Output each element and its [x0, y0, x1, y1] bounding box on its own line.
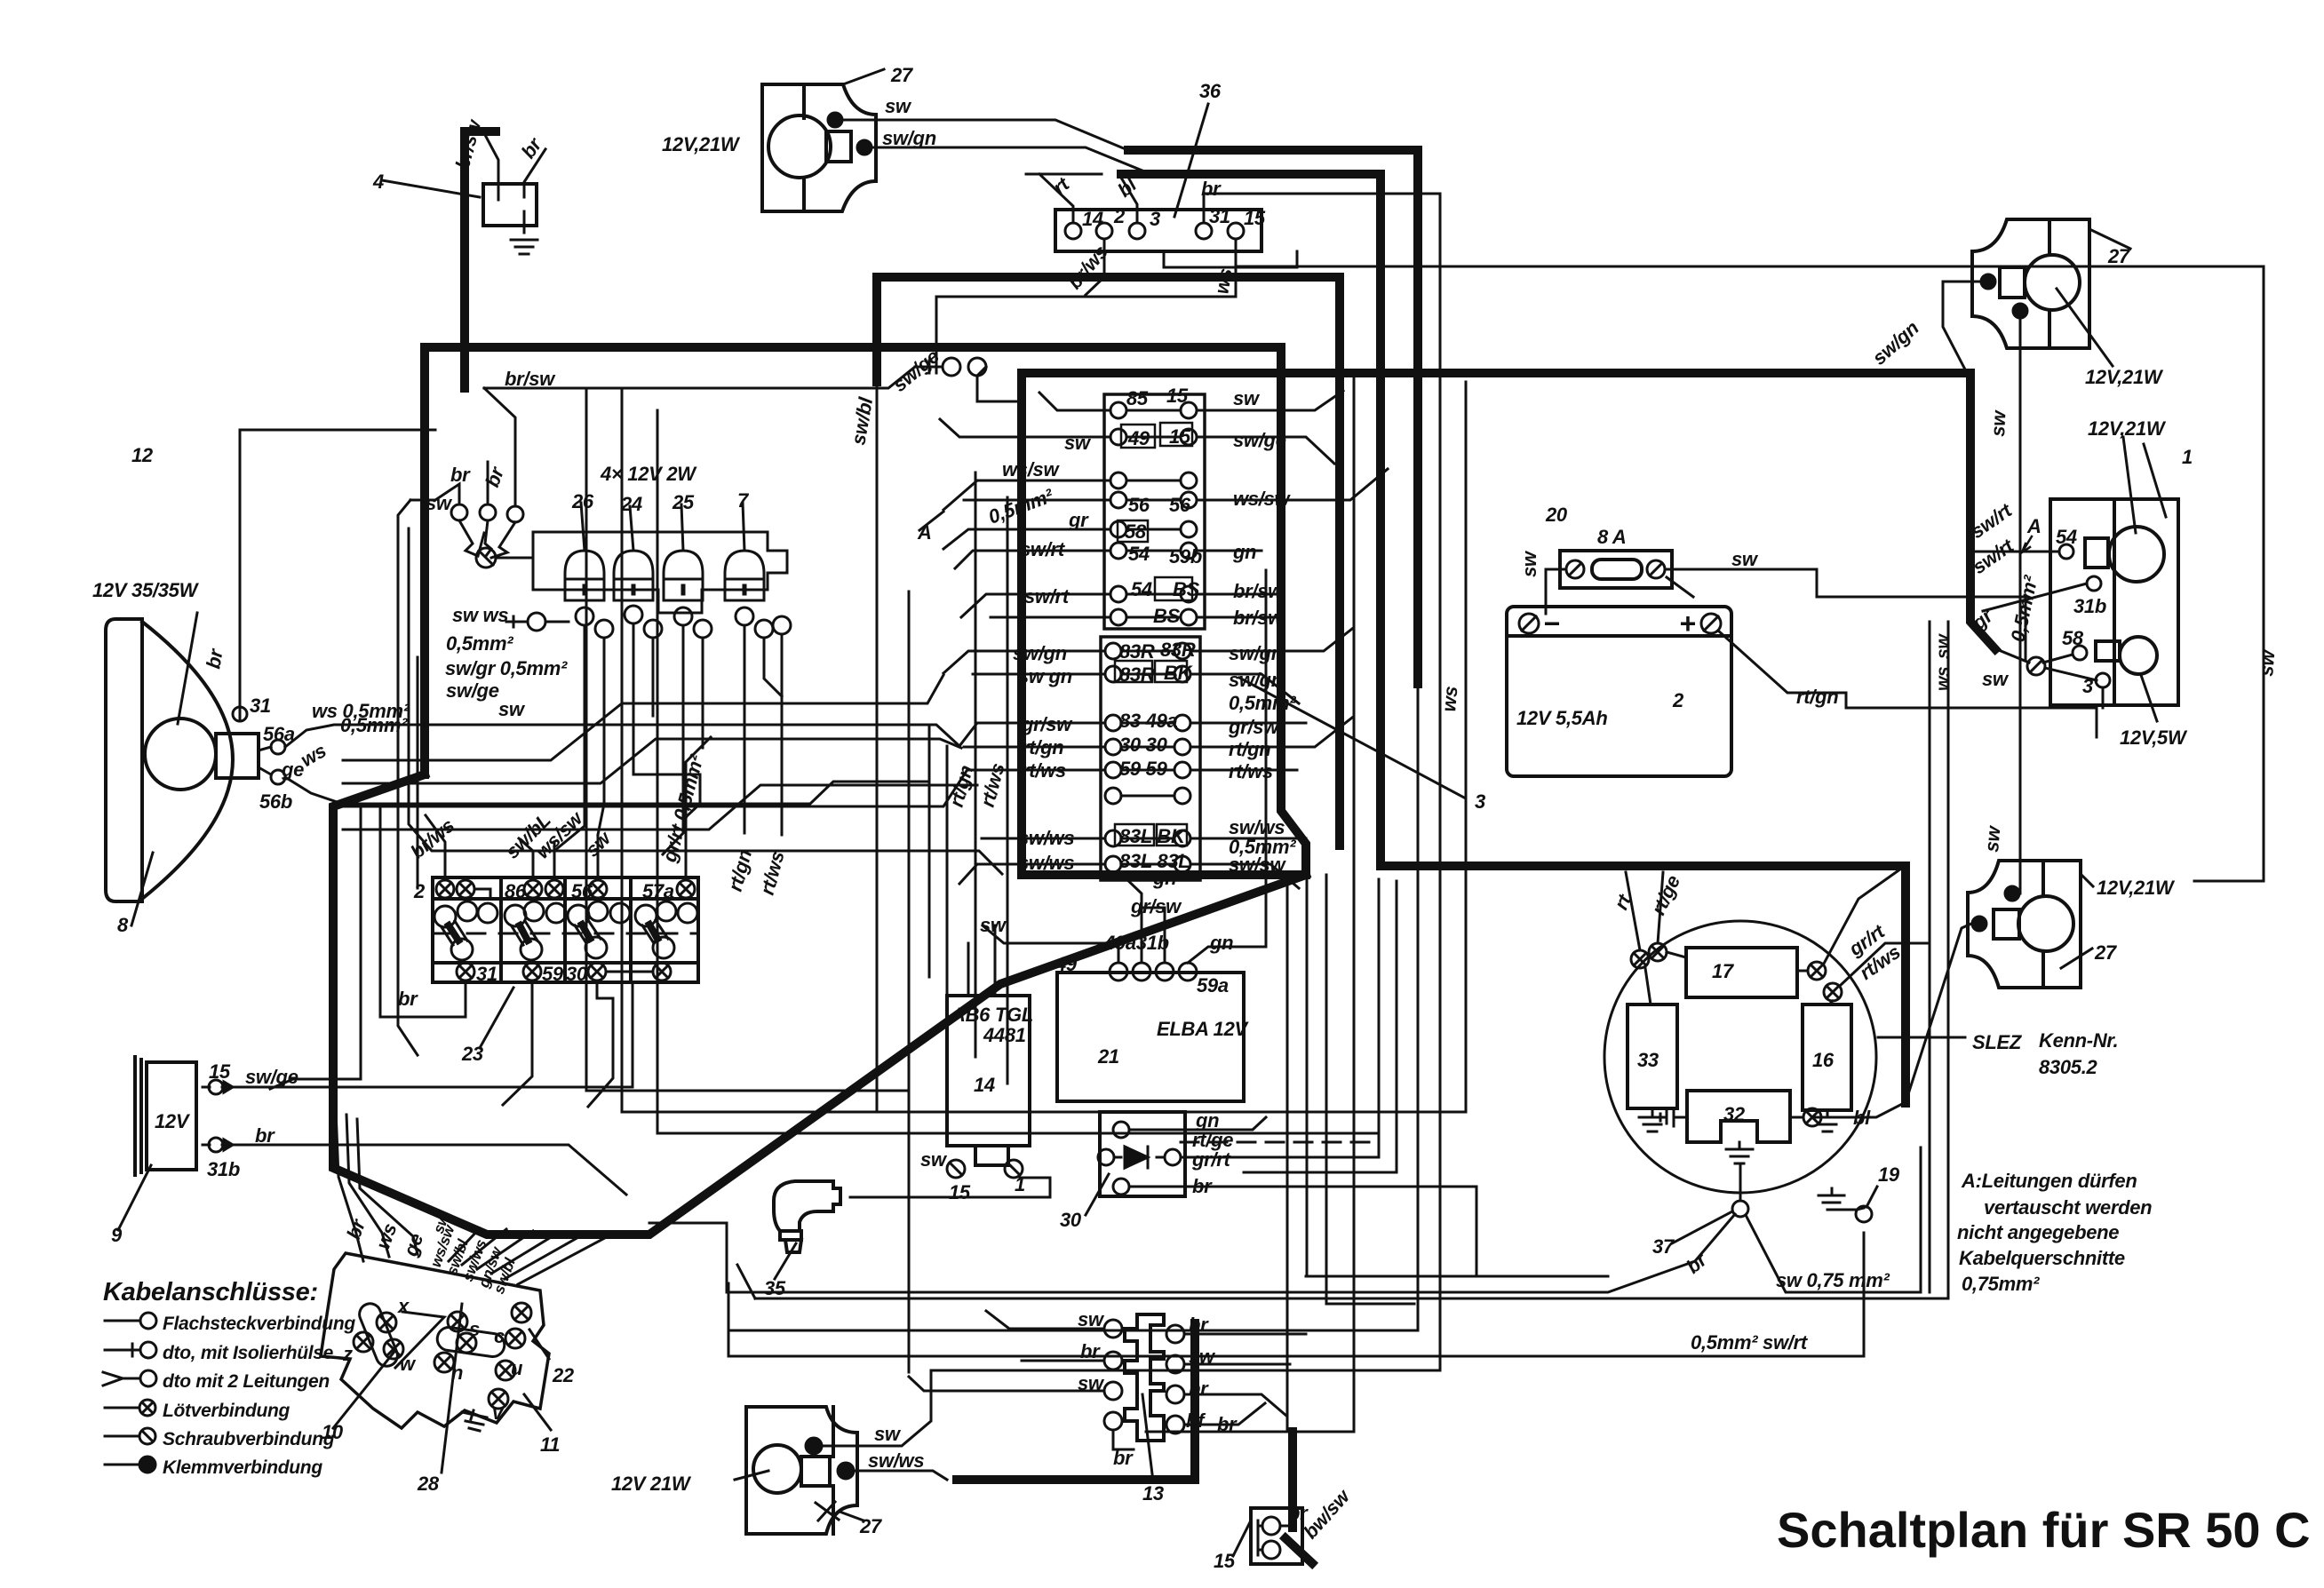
- plate leader lines: [333, 1353, 394, 1428]
- connector 4 box: [483, 184, 537, 226]
- svg-text:56b: 56b: [259, 790, 292, 813]
- long bottom horizontals: [755, 622, 1948, 1298]
- lamp BR wires: [2005, 886, 2019, 901]
- svg-text:+: +: [1679, 607, 1695, 639]
- svg-text:33: 33: [1637, 1049, 1659, 1071]
- svg-text:56a: 56a: [263, 723, 295, 745]
- svg-text:z: z: [342, 1343, 353, 1365]
- svg-text:x: x: [397, 1295, 410, 1317]
- svg-text:br: br: [398, 988, 418, 1010]
- svg-text:rt/gn: rt/gn: [1229, 738, 1270, 760]
- right far wires: [2194, 613, 2264, 881]
- svg-text:1: 1: [1015, 1173, 1025, 1195]
- lamp 27 top-right housing: [1972, 219, 2089, 348]
- ground 37 and wires: [1732, 1201, 1748, 1217]
- svg-text:sw: sw: [1233, 387, 1261, 409]
- tail light box: [2050, 499, 2178, 705]
- svg-text:Flachsteckverbindung: Flachsteckverbindung: [163, 1314, 355, 1334]
- svg-text:gr/sw: gr/sw: [1228, 716, 1280, 738]
- svg-text:ws/sw: ws/sw: [1002, 458, 1060, 480]
- svg-text:4: 4: [372, 171, 384, 193]
- wire thick left artery down into ignition plate and diagonal D1: [333, 774, 1306, 1235]
- svg-text:58: 58: [1125, 520, 1147, 543]
- headlight wires: [240, 430, 435, 721]
- svg-text:rt/ws: rt/ws: [1022, 759, 1066, 782]
- svg-text:sw/ge: sw/ge: [1233, 429, 1286, 451]
- svg-text:30: 30: [566, 963, 588, 985]
- svg-text:A: A: [917, 521, 932, 544]
- right side verticals and paths: [1287, 875, 1293, 1432]
- svg-text:dto, mit Isolierhülse: dto, mit Isolierhülse: [163, 1343, 334, 1363]
- svg-text:15: 15: [209, 1060, 231, 1083]
- svg-text:36: 36: [1199, 80, 1222, 102]
- headlight shell: [106, 619, 142, 901]
- SLEZ circle: [1604, 921, 1876, 1193]
- switch block 23 internals: [436, 880, 454, 898]
- rt/rt-ge wires into SLEZ: [1626, 872, 1640, 950]
- ignition switch plate: [321, 1253, 549, 1428]
- svg-text:Kabelquerschnitte: Kabelquerschnitte: [1959, 1247, 2125, 1269]
- svg-text:19: 19: [1878, 1163, 1900, 1186]
- svg-text:−: −: [1543, 607, 1559, 639]
- svg-text:rt/gn: rt/gn: [1022, 736, 1063, 758]
- svg-text:br: br: [255, 1124, 275, 1147]
- svg-text:Lötverbindung: Lötverbindung: [163, 1401, 290, 1421]
- svg-text:83R: 83R: [1119, 663, 1155, 686]
- AB6 box 14: [947, 996, 1030, 1146]
- svg-text:sw/rt: sw/rt: [1024, 585, 1070, 607]
- diode 30 internals: [1113, 1122, 1129, 1138]
- svg-text:49: 49: [1055, 953, 1078, 975]
- svg-text:15: 15: [1244, 207, 1266, 229]
- ground 19: [1819, 1188, 1864, 1210]
- svg-text:sw/ws: sw/ws: [1018, 852, 1074, 874]
- svg-text:12V,21W: 12V,21W: [662, 133, 741, 155]
- wires from bulb terminals: [554, 625, 585, 851]
- svg-text:0,5mm²: 0,5mm²: [446, 632, 513, 655]
- diode wires to right: [1129, 1117, 1266, 1130]
- svg-text:ws 0,5mm²: ws 0,5mm²: [312, 700, 410, 722]
- svg-text:16: 16: [1812, 1049, 1835, 1071]
- svg-text:83L BK: 83L BK: [1119, 825, 1187, 847]
- svg-text:11: 11: [540, 1433, 560, 1456]
- svg-text:56: 56: [1169, 494, 1191, 516]
- svg-text:10: 10: [322, 1421, 344, 1443]
- svg-text:31: 31: [1209, 205, 1230, 227]
- svg-text:sw: sw: [874, 1423, 902, 1445]
- svg-text:vertauscht werden: vertauscht werden: [1984, 1196, 2152, 1219]
- wire sw/gn bus: [1121, 174, 1906, 1103]
- svg-text:br/sw: br/sw: [1233, 580, 1285, 602]
- svg-text:ELBA 12V: ELBA 12V: [1157, 1018, 1250, 1040]
- svg-text:83R: 83R: [1160, 639, 1196, 661]
- svg-text:0,5mm² sw/rt: 0,5mm² sw/rt: [1691, 1331, 1809, 1354]
- svg-text:BS: BS: [1173, 578, 1200, 600]
- svg-text:s: s: [469, 1318, 480, 1340]
- svg-text:bf: bf: [1186, 1409, 1206, 1432]
- svg-text:Schraubverbindung: Schraubverbindung: [163, 1429, 335, 1449]
- svg-text:56: 56: [571, 880, 593, 902]
- svg-text:A:Leitungen dürfen: A:Leitungen dürfen: [1961, 1170, 2137, 1192]
- svg-text:rt/ws: rt/ws: [1229, 760, 1273, 782]
- lamp 27 bottom-left housing: [746, 1407, 857, 1534]
- svg-text:ws/sw: ws/sw: [1233, 488, 1291, 510]
- svg-text:27: 27: [2107, 245, 2131, 267]
- svg-text:13: 13: [1142, 1482, 1164, 1505]
- svg-text:br: br: [1113, 1447, 1134, 1469]
- svg-text:25: 25: [672, 491, 695, 513]
- svg-text:sw ws: sw ws: [452, 604, 508, 626]
- svg-text:1: 1: [2182, 446, 2193, 468]
- wire sw bus (upper): [1128, 150, 1418, 684]
- svg-text:27: 27: [890, 64, 914, 86]
- sw/bl plug pair at top: [943, 358, 960, 376]
- ELBA connector row: [1110, 963, 1127, 981]
- lamp TR wires: [1981, 274, 1995, 289]
- svg-text:4× 12V 2W: 4× 12V 2W: [600, 463, 697, 485]
- svg-text:ws: ws: [1437, 686, 1461, 713]
- wire inner frame: [1022, 373, 1995, 875]
- svg-text:br: br: [1080, 1340, 1101, 1362]
- svg-text:sw/ws: sw/ws: [1018, 827, 1074, 849]
- lamp 27 top-left housing: [762, 84, 876, 211]
- connector 36 box: [1055, 210, 1261, 251]
- svg-text:sw: sw: [1986, 409, 2010, 437]
- svg-text:sw/gn: sw/gn: [1229, 669, 1283, 691]
- svg-text:58: 58: [2062, 627, 2084, 649]
- svg-text:BK: BK: [1164, 662, 1194, 684]
- wire bundle into plate: [336, 1110, 363, 1261]
- svg-text:sw: sw: [1518, 550, 1540, 577]
- svg-text:2: 2: [413, 880, 426, 902]
- svg-text:14: 14: [1082, 208, 1103, 230]
- svg-text:Kenn-Nr.: Kenn-Nr.: [2039, 1029, 2118, 1052]
- svg-text:gn: gn: [1209, 932, 1233, 954]
- svg-text:br: br: [1201, 178, 1222, 200]
- ELBA box: [1057, 973, 1244, 1101]
- svg-text:sw: sw: [1982, 668, 2010, 690]
- svg-text:15: 15: [1169, 425, 1191, 448]
- svg-text:28: 28: [417, 1473, 440, 1495]
- legend symbols: [105, 1320, 140, 1322]
- svg-text:12V,21W: 12V,21W: [2097, 877, 2176, 899]
- svg-text:br: br: [450, 464, 471, 486]
- svg-text:sw/gn: sw/gn: [1229, 642, 1283, 664]
- svg-text:w: w: [400, 1353, 417, 1375]
- svg-text:SLEZ: SLEZ: [1972, 1031, 2023, 1053]
- svg-text:sw: sw: [1078, 1308, 1105, 1330]
- wire thick bottom lamp to connector 13: [957, 1323, 1195, 1480]
- left stub connections: [1039, 393, 1110, 410]
- bottom-left lamp wires: [806, 1438, 822, 1454]
- svg-text:sw: sw: [498, 698, 526, 720]
- svg-text:sw: sw: [1078, 1372, 1105, 1394]
- svg-text:12V,5W: 12V,5W: [2120, 727, 2188, 749]
- svg-text:sw/ge: sw/ge: [245, 1066, 298, 1088]
- svg-text:4481: 4481: [983, 1024, 1026, 1046]
- connector 13: [1125, 1314, 1164, 1441]
- svg-text:n: n: [451, 1362, 463, 1384]
- svg-text:30: 30: [1060, 1209, 1082, 1231]
- svg-text:31b: 31b: [207, 1158, 240, 1180]
- svg-text:nicht angegebene: nicht angegebene: [1957, 1221, 2119, 1243]
- svg-text:31b: 31b: [2073, 595, 2106, 617]
- svg-text:3: 3: [1475, 790, 1485, 813]
- tail light wires: [1970, 551, 2059, 553]
- svg-text:gr: gr: [1068, 509, 1089, 531]
- svg-text:12V: 12V: [155, 1110, 191, 1132]
- svg-text:br/sw: br/sw: [1233, 607, 1285, 629]
- svg-text:Klemmverbindung: Klemmverbindung: [163, 1457, 322, 1478]
- svg-text:sw/rt: sw/rt: [1020, 538, 1066, 560]
- instrument lamp cluster: [451, 504, 467, 520]
- svg-text:sw: sw: [1980, 823, 2005, 853]
- svg-text:ws: ws: [1210, 266, 1237, 296]
- svg-text:15: 15: [1214, 1550, 1236, 1572]
- svg-text:24: 24: [620, 493, 642, 515]
- conn4 wires: [484, 133, 498, 200]
- svg-text:8305.2: 8305.2: [2039, 1056, 2098, 1078]
- svg-text:22: 22: [552, 1364, 575, 1386]
- svg-text:A: A: [2026, 515, 2041, 537]
- diode box 30: [1100, 1112, 1185, 1196]
- svg-text:u: u: [511, 1357, 523, 1379]
- svg-text:59: 59: [542, 963, 564, 985]
- svg-text:0,75mm²: 0,75mm²: [1962, 1273, 2040, 1295]
- svg-text:12V 21W: 12V 21W: [611, 1473, 692, 1495]
- svg-text:br: br: [1217, 1413, 1238, 1435]
- conn13 circles and wires: [1104, 1320, 1122, 1338]
- svg-text:20: 20: [1545, 504, 1568, 526]
- svg-text:83R: 83R: [1119, 640, 1155, 663]
- svg-text:59b: 59b: [1169, 545, 1202, 568]
- fuse 20: [1560, 551, 1672, 588]
- svg-text:gr/sw: gr/sw: [1130, 895, 1182, 917]
- svg-text:37: 37: [1652, 1235, 1675, 1258]
- long middle loop: [622, 388, 1466, 1112]
- switch block 23: [433, 877, 698, 982]
- SLEZ terminals: [1649, 943, 1667, 961]
- bulbs 26 24 25 7: [565, 551, 604, 579]
- svg-text:35: 35: [764, 1277, 786, 1299]
- svg-text:gr/sw: gr/sw: [1021, 713, 1073, 735]
- svg-text:br: br: [1192, 1175, 1213, 1197]
- svg-text:83L 83L: 83L 83L: [1119, 850, 1190, 872]
- svg-text:sw: sw: [1731, 548, 1759, 570]
- svg-text:17: 17: [1712, 960, 1735, 982]
- lamp cluster box: [533, 532, 787, 613]
- svg-text:21: 21: [1097, 1045, 1119, 1068]
- speaker 9: [147, 1062, 196, 1170]
- lamp 27 bottom-right housing: [1968, 861, 2081, 988]
- svg-text:2: 2: [1672, 689, 1684, 711]
- svg-text:sw/sw: sw/sw: [1229, 854, 1286, 876]
- svg-text:12V,21W: 12V,21W: [2088, 417, 2167, 440]
- svg-text:br/sw: br/sw: [505, 368, 556, 390]
- svg-text:0,5mm²: 0,5mm²: [1229, 692, 1296, 714]
- wire thick top bus with corners: [877, 277, 1340, 846]
- svg-text:59a: 59a: [1197, 974, 1229, 996]
- svg-text:26: 26: [571, 490, 594, 512]
- svg-text:dto mit 2 Leitungen: dto mit 2 Leitungen: [163, 1371, 330, 1392]
- wire inner frame bottom edge: [1022, 870, 1306, 879]
- svg-text:sw/gn: sw/gn: [1013, 642, 1067, 664]
- svg-text:sw: sw: [426, 492, 453, 514]
- svg-text:br: br: [1189, 1314, 1209, 1336]
- svg-text:83 49a: 83 49a: [1119, 710, 1178, 732]
- svg-text:54: 54: [1131, 578, 1152, 600]
- svg-text:rt/gn: rt/gn: [1796, 686, 1838, 708]
- svg-text:sw/gr 0,5mm²: sw/gr 0,5mm²: [445, 657, 568, 679]
- svg-text:8: 8: [117, 914, 129, 936]
- svg-text:27: 27: [2094, 941, 2118, 964]
- svg-text:56: 56: [1128, 494, 1150, 516]
- wire outer loop: left vertical, top horizontal, right vertical: [425, 347, 1306, 875]
- svg-text:31: 31: [250, 695, 271, 717]
- battery: [1507, 607, 1731, 776]
- svg-text:12V 5,5Ah: 12V 5,5Ah: [1516, 707, 1607, 729]
- ignition plate internals: [354, 1332, 373, 1352]
- svg-text:Schaltplan für SR 50 C: Schaltplan für SR 50 C: [1777, 1502, 2311, 1558]
- svg-text:12V 35/35W: 12V 35/35W: [92, 579, 200, 601]
- svg-text:9: 9: [111, 1224, 123, 1246]
- svg-text:br: br: [1189, 1378, 1209, 1400]
- svg-text:gr/rt: gr/rt: [1191, 1148, 1231, 1171]
- svg-text:ge: ge: [281, 758, 304, 781]
- svg-text:c: c: [494, 1325, 505, 1347]
- svg-text:15: 15: [1166, 385, 1189, 407]
- AB6 screws and wires: [947, 1160, 965, 1178]
- svg-text:sw: sw: [1064, 432, 1092, 454]
- svg-text:sw 0,75 mm²: sw 0,75 mm²: [1776, 1269, 1890, 1291]
- svg-text:sw/gn: sw/gn: [882, 127, 936, 149]
- svg-text:27: 27: [859, 1515, 883, 1537]
- right stub connections: [1197, 391, 1343, 410]
- svg-text:bl: bl: [1853, 1107, 1871, 1129]
- svg-text:7: 7: [737, 489, 750, 512]
- svg-text:49: 49: [1127, 427, 1150, 449]
- wires between 23 and central area: [876, 382, 879, 1110]
- wire br/sw vertical from connector 4: [465, 131, 496, 388]
- svg-text:32: 32: [1723, 1103, 1746, 1125]
- fuse and battery wires: [1566, 560, 1584, 578]
- svg-text:AB6 TGL: AB6 TGL: [951, 1004, 1033, 1026]
- svg-text:12V,21W: 12V,21W: [2085, 366, 2164, 388]
- svg-text:sw/ws: sw/ws: [868, 1449, 924, 1472]
- wire thick at switch 15: [1288, 1432, 1297, 1528]
- spark plug 35: [774, 1181, 840, 1231]
- svg-text:57a: 57a: [642, 880, 674, 902]
- svg-text:14: 14: [974, 1074, 995, 1096]
- svg-text:Kabelanschlüsse:: Kabelanschlüsse:: [103, 1278, 318, 1306]
- speaker wires: [203, 984, 633, 1087]
- spark plug wire: [850, 1178, 1050, 1197]
- svg-text:49a31b: 49a31b: [1103, 932, 1169, 954]
- svg-text:12: 12: [131, 444, 154, 466]
- svg-text:sw: sw: [980, 914, 1007, 936]
- left nest loops: [398, 500, 418, 1055]
- svg-text:sw: sw: [2255, 647, 2280, 677]
- svg-text:54: 54: [2056, 526, 2077, 548]
- svg-text:86: 86: [505, 880, 527, 902]
- svg-text:31: 31: [476, 963, 497, 985]
- switch 15 bottom: [1251, 1508, 1302, 1564]
- svg-text:85: 85: [1126, 387, 1149, 409]
- svg-text:23: 23: [461, 1043, 483, 1065]
- svg-text:sw: sw: [1933, 633, 1954, 659]
- svg-text:3: 3: [1150, 208, 1160, 230]
- svg-text:sw: sw: [1189, 1346, 1216, 1368]
- svg-text:8 A: 8 A: [1597, 526, 1627, 548]
- svg-text:3: 3: [2082, 675, 2093, 697]
- svg-text:sw/ge: sw/ge: [446, 679, 499, 702]
- svg-text:sw: sw: [920, 1148, 948, 1171]
- lamp TL wires: [828, 113, 842, 127]
- svg-text:v: v: [492, 1401, 505, 1424]
- svg-text:15: 15: [949, 1181, 971, 1203]
- svg-text:gn: gn: [1232, 541, 1256, 563]
- svg-text:2: 2: [1113, 205, 1126, 227]
- svg-text:sw: sw: [885, 95, 912, 117]
- svg-text:30 30: 30 30: [1119, 734, 1168, 756]
- svg-text:54: 54: [1128, 543, 1150, 565]
- switch15 internals: [1262, 1517, 1280, 1535]
- svg-text:ws: ws: [1933, 667, 1954, 691]
- svg-text:BS: BS: [1153, 605, 1181, 627]
- svg-text:sw gn: sw gn: [1018, 665, 1072, 687]
- conn36 wires: [1039, 174, 1073, 223]
- svg-text:59 59: 59 59: [1119, 758, 1168, 780]
